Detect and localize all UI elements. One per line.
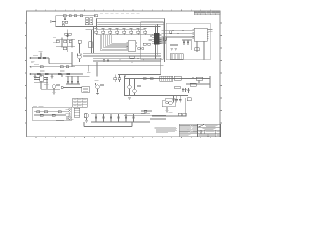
resistor R37: [37, 73, 40, 75]
resistor R36: [60, 66, 63, 68]
wire relay net: [41, 88, 60, 90]
net A connector mark: [30, 57, 31, 58]
wire U1 right leads: [160, 38, 166, 40]
capacitor C2: [62, 21, 64, 23]
wire bus line 1: [93, 58, 161, 60]
resistor R33: [38, 57, 41, 59]
wire vertical left trunk: [71, 52, 73, 67]
label Q3: [95, 80, 99, 83]
wire mid rail: [72, 64, 164, 66]
connector pin P2: [61, 86, 63, 88]
small parts lower left: [31, 60, 35, 63]
label L-mid: [44, 84, 49, 87]
wire opto drop 1: [40, 81, 42, 89]
diode D3: [66, 66, 69, 68]
resistor R41: [57, 84, 60, 86]
wire opto in 1: [34, 77, 40, 79]
capacitor C11: [142, 48, 144, 50]
ground G8: [86, 118, 88, 120]
ground G7: [128, 98, 131, 100]
wire left net C: [30, 73, 83, 75]
ladder top parts: [65, 33, 68, 35]
wire filter bottom rail: [91, 121, 150, 123]
junction dots bus: [119, 60, 120, 61]
ic U8 small: [89, 42, 93, 48]
capacitor C27 drop: [77, 76, 79, 81]
io section enclosure: [166, 23, 210, 60]
io feed junction dots: [172, 30, 173, 31]
title block main box: [198, 124, 221, 137]
resistor R52 small: [190, 83, 196, 86]
wire bottom right L: [152, 115, 186, 117]
wire ladder verticals: [61, 38, 63, 48]
resistor R34: [43, 57, 46, 59]
ic U3: [194, 28, 207, 41]
opto U4: [40, 76, 44, 82]
ic U1 pin stubs: [152, 34, 161, 44]
resistor network RN1 row: [95, 29, 98, 34]
labels kb pins: [66, 108, 70, 111]
ladder bottom part: [63, 47, 66, 50]
wire bus drop to lower net: [96, 62, 98, 77]
revision table block: [194, 11, 220, 15]
wire U3 bottom drop 2: [203, 41, 205, 60]
kb text label bottom: [56, 119, 64, 122]
wire bus right drop: [160, 59, 162, 75]
net labels bottom wire: [141, 112, 146, 115]
resistor R21: [175, 44, 178, 46]
wire bottom nets to right: [124, 114, 166, 116]
wire secondary rail: [86, 29, 94, 31]
wire filter return: [84, 126, 132, 128]
kb part 1: [37, 111, 40, 113]
capacitor C25 drop: [67, 76, 69, 81]
cap pair right of M1: [182, 88, 184, 92]
wire caps ground rail: [67, 82, 69, 84]
transistor Q2: [52, 85, 56, 89]
resistor R44: [101, 84, 103, 86]
junction blob: [67, 35, 69, 37]
wire cpu left vertical: [164, 18, 166, 62]
jumper table J1: [73, 98, 88, 107]
module M1 stepped outline: [162, 99, 175, 107]
capacitor C10: [148, 43, 150, 45]
wire kb net 1: [34, 111, 66, 113]
transistor Q5: [133, 89, 137, 93]
net C connector mark: [30, 73, 31, 74]
capacitor C3: [65, 21, 67, 23]
capacitor C16: [187, 40, 189, 45]
parts on bottom net: [144, 110, 147, 112]
fuse F1: [63, 15, 66, 17]
sheet notes text block: [155, 127, 178, 132]
net B connector mark: [30, 66, 31, 67]
ground G4: [51, 74, 53, 77]
title block fine-print column: [179, 124, 198, 137]
U3 side labels: [208, 28, 212, 31]
resistor R55 on net: [143, 78, 146, 80]
resistor R2: [94, 15, 97, 17]
resistor row bus top rail: [96, 28, 145, 30]
capacitor C26 drop: [71, 76, 73, 81]
regulator U5: [82, 87, 90, 93]
wire kb net 2: [34, 114, 66, 116]
resistor R20: [171, 44, 174, 46]
wire rail left drop: [96, 18, 98, 29]
ground G6: [96, 93, 99, 95]
wire U1 top feeds: [155, 26, 157, 34]
wire Q4 nets: [129, 79, 131, 86]
wire left net B: [30, 66, 75, 68]
wire io feed 2: [162, 32, 194, 34]
resistor R13 right: [78, 40, 81, 43]
wire net bottom right: [150, 118, 166, 120]
signal stub label: [87, 71, 90, 74]
wire M1 down: [166, 107, 168, 111]
cpu section enclosure: [141, 22, 164, 60]
wire parts stubs: [114, 75, 116, 78]
box small top right of M1: [175, 86, 181, 89]
wire Q3 nets: [95, 83, 97, 85]
title block text: [198, 125, 219, 135]
connector P1: [50, 21, 52, 23]
wire io feed 1: [162, 30, 194, 32]
bus routing staircase fan: [100, 35, 128, 51]
resistor R56 on net: [150, 78, 153, 80]
wire opto in 2: [34, 79, 40, 81]
resistor R39: [58, 73, 61, 75]
resistor R53 small: [187, 98, 191, 101]
junction dot M1: [185, 115, 186, 116]
wire P2 net: [63, 87, 81, 89]
wire top input net: [56, 15, 96, 17]
transistor Q3: [96, 85, 100, 89]
wire vcc rail: [66, 75, 90, 77]
wire filter top rail: [91, 113, 150, 115]
ladder row parts: [56, 40, 59, 43]
wire bus step: [118, 74, 161, 76]
capacitor C21 between buses: [107, 59, 109, 62]
kb part 3: [58, 111, 61, 113]
wire feed vertical b: [93, 27, 95, 54]
wire Q5 nets: [134, 79, 136, 90]
keyboard label: [33, 105, 37, 108]
wire upper rail: [98, 23, 165, 25]
wire main horizontal rail: [56, 26, 161, 28]
wire upper rail drop: [164, 18, 166, 30]
wire net y955: [125, 95, 189, 97]
net C stub d2: [61, 74, 63, 77]
ic U6 box: [160, 76, 173, 81]
resistor R30 on bus: [130, 56, 134, 58]
signal stub down: [87, 65, 89, 71]
wire vertical x1245: [124, 76, 126, 96]
wire rail y228: [97, 22, 165, 24]
resistor R38: [45, 73, 48, 75]
kb part 5: [52, 114, 55, 116]
ground G2: [174, 49, 177, 51]
sheet border frame: [27, 11, 221, 137]
inductor L2: [74, 15, 76, 17]
wire bus line 2: [93, 59, 161, 61]
ground G5: [53, 93, 56, 95]
resistor R35: [40, 66, 43, 68]
diode D4: [67, 73, 70, 75]
resistor R50: [138, 85, 141, 87]
revision table text: [195, 12, 220, 15]
wire R13 lead down: [79, 43, 81, 53]
net label dashes top: [100, 12, 140, 15]
transistor Q4: [128, 85, 132, 89]
transistor Q1: [78, 55, 81, 58]
resistor R51 small: [196, 77, 203, 80]
resistor R10: [138, 48, 141, 50]
wire right drop x210: [209, 76, 211, 88]
wire bus line 3: [93, 61, 161, 63]
kb connector pins: [66, 109, 70, 120]
ladder labels: [53, 37, 56, 40]
connector J3 hatched: [170, 54, 183, 59]
net C stub d1: [40, 74, 42, 77]
wire net y84 right: [186, 83, 210, 85]
net A stub up: [40, 53, 42, 58]
wire power rail pair: [83, 52, 161, 54]
wire left drop: [55, 16, 57, 27]
inductor L1: [69, 15, 71, 17]
fine-print text lines: [180, 125, 198, 136]
wire U1 left stubs: [150, 35, 152, 37]
resistor R19 vertical: [170, 31, 172, 34]
company logo slash: [198, 125, 205, 128]
transformer T1: [85, 18, 88, 25]
transformer T1 secondary: [90, 18, 93, 25]
wire mid drop: [191, 41, 193, 50]
wire opto drop 2: [46, 78, 48, 90]
wire net y785: [125, 78, 211, 80]
wire U3 bottom drop 1: [196, 41, 198, 52]
diode D1: [62, 24, 64, 26]
ic U7 box: [174, 76, 181, 80]
component right of U1: [164, 37, 167, 40]
parts under bus step: [114, 78, 117, 80]
ground G1: [170, 49, 173, 51]
wire r51 feeds: [192, 77, 194, 79]
wire io feed 3: [162, 36, 194, 38]
ground G3: [34, 74, 36, 77]
parts under U3: [195, 48, 200, 51]
resistor row bus bottom rail: [96, 34, 153, 36]
labels left of J2: [66, 117, 72, 120]
wire feed vertical a: [91, 30, 93, 54]
capacitor C20 between buses: [103, 59, 105, 62]
wire ladder rail 2: [56, 45, 75, 47]
capacitor C15: [183, 40, 185, 45]
filter capacitor bank: [95, 114, 97, 117]
wire left net A: [30, 57, 49, 59]
keyboard enclosure KB1: [32, 107, 71, 120]
resistor R1: [80, 15, 83, 17]
kb part 4: [40, 114, 43, 116]
speaker LS1: [84, 113, 88, 117]
transistor Q6: [169, 101, 172, 104]
cap drops top of M1: [173, 96, 175, 100]
capacitor C1: [64, 17, 66, 20]
wire caps rail: [182, 39, 192, 41]
ic U3 pins: [192, 30, 208, 39]
border zone tick marks: [25, 10, 222, 139]
wire U1 bottom drops: [155, 45, 157, 59]
ic U2: [128, 41, 136, 52]
ic U1 dark connector: [154, 33, 160, 45]
crystal Y1: [143, 43, 146, 45]
parts in M1: [166, 102, 169, 104]
cluster caps right: [187, 88, 189, 93]
wire step down: [48, 58, 50, 64]
wire under opto: [34, 82, 48, 84]
kb part 2: [44, 111, 48, 113]
wire rail y183: [97, 17, 165, 19]
wire ladder rail 1: [56, 38, 75, 40]
connector J2 hatched: [74, 108, 80, 117]
